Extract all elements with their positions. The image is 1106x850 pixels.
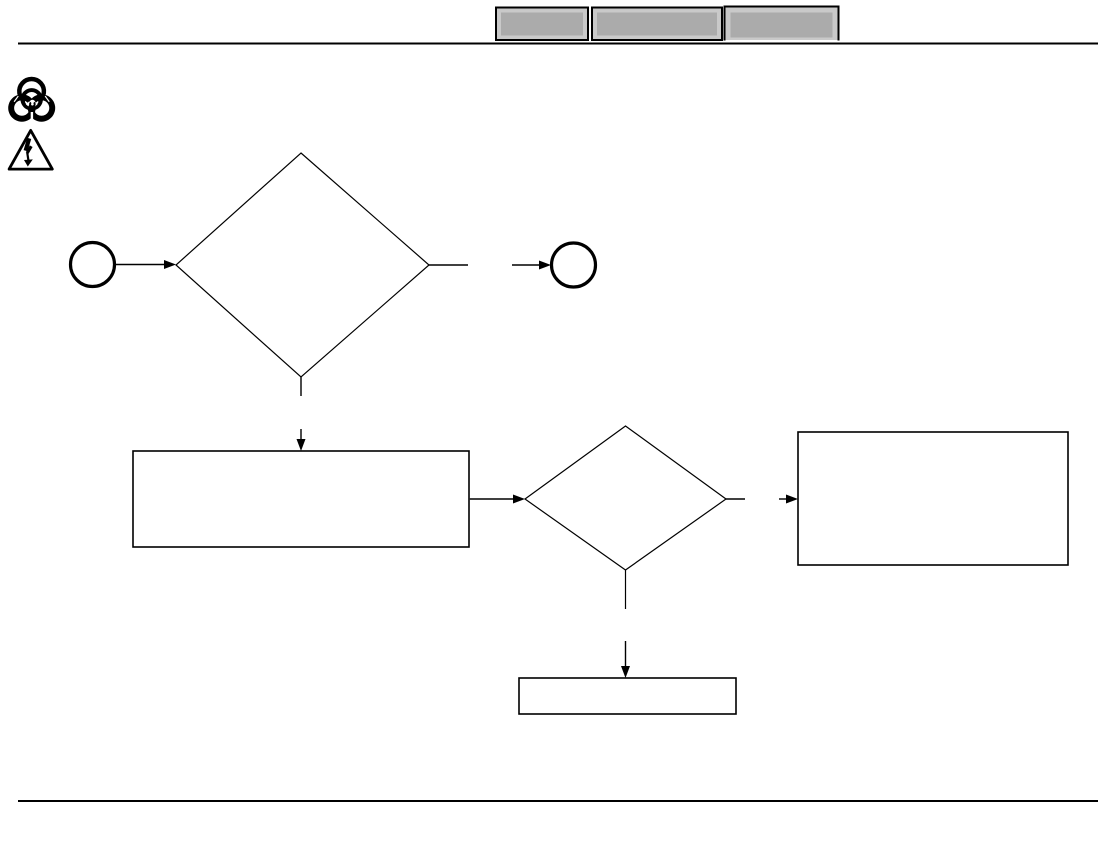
end circle	[552, 243, 596, 287]
arrow: into terminator box P3	[621, 641, 630, 678]
process box P1	[133, 451, 469, 547]
process box P2	[798, 432, 1068, 565]
arrow: P1 to decision D2	[470, 495, 525, 504]
electrical hazard triangle	[9, 130, 52, 169]
wire: D2 bottom stub	[625, 570, 627, 609]
nav button 3	[725, 7, 839, 41]
nav button 1	[496, 8, 588, 41]
arrow: into process box P2	[779, 495, 798, 504]
wire: D1 right stub	[429, 264, 468, 266]
biohazard icon	[8, 79, 55, 122]
top rule	[18, 43, 1098, 45]
decision diamond D1	[176, 153, 429, 377]
wire: D1 bottom stub	[300, 377, 302, 396]
arrow: into process box P1	[297, 429, 306, 451]
terminator box P3	[519, 678, 736, 714]
arrow: start circle to decision D1	[116, 260, 176, 269]
lightning bolt	[24, 138, 33, 167]
arrow: into end circle	[512, 261, 551, 270]
nav button 2	[592, 8, 722, 41]
wire: D2 right stub	[726, 498, 745, 500]
start circle	[71, 243, 115, 287]
bottom rule	[18, 800, 1098, 802]
decision diamond D2	[525, 426, 726, 570]
